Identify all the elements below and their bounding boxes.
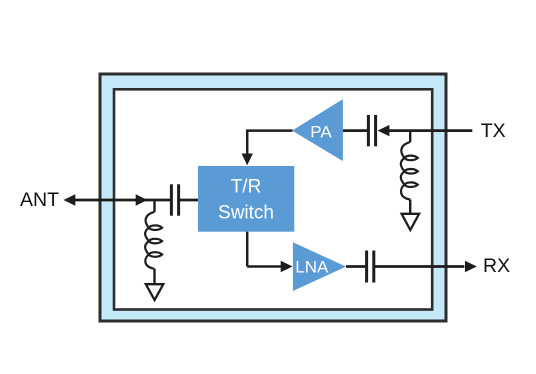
svg-text:ANT: ANT [20,189,59,211]
svg-text:TX: TX [481,120,506,142]
svg-text:Switch: Switch [218,203,274,224]
svg-text:RX: RX [483,255,510,277]
svg-text:LNA: LNA [295,257,329,276]
svg-text:T/R: T/R [231,177,262,198]
svg-text:PA: PA [310,122,332,141]
